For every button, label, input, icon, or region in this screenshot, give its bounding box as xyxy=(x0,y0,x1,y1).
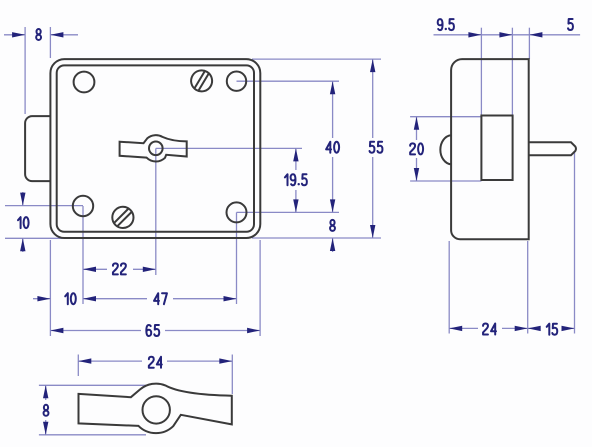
ext line plate bottom right xyxy=(252,237,381,239)
label 19.5 xyxy=(285,174,288,185)
dim 24/15 side line xyxy=(449,327,574,329)
hole bottom-left xyxy=(73,196,93,216)
arrow 40 top xyxy=(330,81,335,94)
key cam front view xyxy=(120,135,187,161)
hole bottom-right xyxy=(227,202,247,222)
dim 8 top: extension line left (latch left edge) xyxy=(24,27,26,114)
label 47 xyxy=(154,293,159,304)
ext line bottom-right hole vertical xyxy=(236,212,238,304)
arrow 8 wing down xyxy=(43,422,48,435)
label 40 xyxy=(326,142,331,153)
side view bump xyxy=(440,135,451,164)
ext line pin tip down xyxy=(574,151,576,334)
side view bolt rectangle xyxy=(481,116,512,181)
label 5 xyxy=(568,19,573,30)
lock plate outer outline xyxy=(50,59,260,238)
arrow 20 top xyxy=(414,117,419,130)
label 22 xyxy=(113,263,118,274)
arrow 65 left xyxy=(50,328,63,333)
dim 9.5 and 5 line xyxy=(434,34,581,36)
black part outlines xyxy=(25,59,576,433)
dim 20 line xyxy=(416,117,418,181)
ext line wing right xyxy=(231,355,233,395)
dim 8 right tail xyxy=(332,238,334,252)
arrow 9.5 right xyxy=(499,32,512,37)
dim 20 extension lines xyxy=(410,117,481,181)
arrow 20 bottom xyxy=(414,168,419,181)
side view spindle pin xyxy=(529,142,576,155)
arrow 15 left xyxy=(528,326,541,331)
arrow 40 bottom xyxy=(330,199,335,212)
dim 47 line xyxy=(83,298,237,300)
arrow 65 right xyxy=(247,328,260,333)
arrow 15 right xyxy=(562,326,575,331)
dim 65 line xyxy=(50,330,260,332)
centre line key hole horizontal to 19.5 dim xyxy=(156,147,302,149)
dim 8 wing extension lines xyxy=(39,385,148,435)
dim 10 left: tails xyxy=(22,192,24,252)
dim 10 bottom tail xyxy=(33,298,50,300)
arrow 47 left xyxy=(83,296,96,301)
ext line bottom-left hole horizontal xyxy=(5,205,83,207)
ext line plate bottom left xyxy=(5,237,67,239)
ext line side inner rect right xyxy=(511,28,513,116)
arrow 9.5 left xyxy=(468,32,481,37)
ext line side body right top xyxy=(528,28,530,59)
arrow 24 side left xyxy=(449,326,462,331)
latch bolt front view xyxy=(25,116,50,181)
key wing bottom view xyxy=(79,384,232,434)
label 8 wing xyxy=(44,405,49,416)
dim 8 wing line xyxy=(45,385,47,435)
arrow 47 right xyxy=(224,296,237,301)
ext line side body left bottom xyxy=(448,241,450,334)
label 10 left xyxy=(18,217,21,228)
label 8 right xyxy=(330,220,335,231)
arrow 10 bottom xyxy=(37,296,50,301)
label 9.5 xyxy=(438,19,443,30)
label 15 xyxy=(547,324,550,335)
side view body xyxy=(451,59,529,239)
label 10 bottom xyxy=(65,293,68,304)
ext line side inner rect left xyxy=(480,28,482,116)
dim 8 top: extension line right (plate left edge) xyxy=(49,27,51,58)
arrow 5 right xyxy=(529,32,542,37)
label 55 xyxy=(370,142,375,153)
label 24 wing xyxy=(149,357,154,368)
arrow 8 wing up xyxy=(43,385,48,398)
ext line bottom-left hole vertical xyxy=(82,206,84,304)
dim 55 line xyxy=(372,59,374,238)
screw top xyxy=(187,66,216,95)
arrow 8 top left xyxy=(12,32,25,37)
dim 22 line xyxy=(83,268,156,270)
dim 19.5 line xyxy=(295,148,297,212)
hole top-left xyxy=(74,72,95,93)
ext line side body right bottom xyxy=(527,241,529,334)
lock plate inner outline xyxy=(57,65,254,231)
arrow 24 wing right xyxy=(219,358,232,363)
arrow 19.5 bottom xyxy=(293,199,298,212)
key wing hole xyxy=(143,396,170,423)
label 24 side xyxy=(483,324,488,335)
arrow 10 left up xyxy=(20,238,25,251)
arrow 22 left xyxy=(83,267,96,272)
ext line top-right hole centre to 40 dim xyxy=(237,80,340,82)
arrow 24 wing left xyxy=(78,358,91,363)
ext line wing left xyxy=(77,355,79,377)
dim 8 top: dimension line tails xyxy=(4,34,78,36)
ext line bottom-right hole horizontal xyxy=(237,211,340,213)
arrow 8 right up xyxy=(330,238,335,251)
arrow 19.5 top xyxy=(293,148,298,161)
arrow 24 side right xyxy=(515,326,528,331)
arrow 55 bottom xyxy=(370,225,375,238)
ext line 65 right xyxy=(259,240,261,336)
arrow 10 left down xyxy=(20,193,25,206)
hole top-right xyxy=(227,72,246,91)
arrow 8 top right xyxy=(50,32,63,37)
label 8 top xyxy=(36,29,41,40)
ext line plate top to 55 dim xyxy=(252,58,381,60)
dim 24 wing line xyxy=(78,360,232,362)
label 20 xyxy=(410,143,415,154)
centre line key hole vertical to 22 dim xyxy=(155,148,157,275)
arrow 55 top xyxy=(370,59,375,72)
ext line 65 left xyxy=(49,240,51,336)
arrow 22 right xyxy=(143,267,156,272)
screw bottom xyxy=(108,202,138,232)
label 65 xyxy=(146,325,151,336)
dim 40 line xyxy=(332,81,334,212)
key cam hole xyxy=(149,142,163,156)
